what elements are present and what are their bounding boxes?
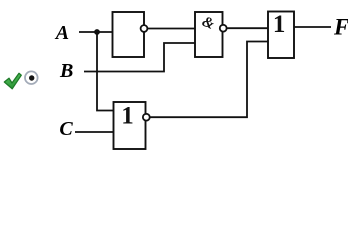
U2 output bubble [220,25,227,32]
green check status icon [4,73,21,89]
wire: input B to U2 input [84,43,195,72]
svg-text:F: F [333,14,348,39]
wire: A branch down to U4 input [97,32,114,111]
svg-text:B: B [59,60,73,82]
NOT gate U1 box [113,12,145,57]
output label F [333,14,348,39]
wire: input C to U4 input [75,131,114,133]
NAND gate U2 box [195,12,223,57]
wire: U3 output to F [294,26,331,28]
U4 label 1 [121,102,134,129]
U4 output bubble [143,114,150,121]
OR gate U3 box [268,12,294,59]
U2 label & [200,14,217,33]
wire: U1 output to U2 input [147,28,195,30]
U3 label 1 [273,11,286,38]
wire: U4 output up to U3 second input [150,42,268,118]
svg-text:1: 1 [121,102,134,129]
wire: U2 output to U3 input [227,27,268,29]
svg-text:C: C [59,118,73,140]
junction node on A [94,29,100,35]
svg-text:A: A [54,22,69,44]
U1 output bubble [141,25,148,32]
svg-text:1: 1 [273,11,286,38]
NOT gate U4 box [114,102,146,149]
input label B [59,60,73,82]
input label A [54,22,69,44]
wire: input A to U1 [79,31,113,33]
input label C [59,118,73,140]
radio indicator icon [25,71,38,84]
